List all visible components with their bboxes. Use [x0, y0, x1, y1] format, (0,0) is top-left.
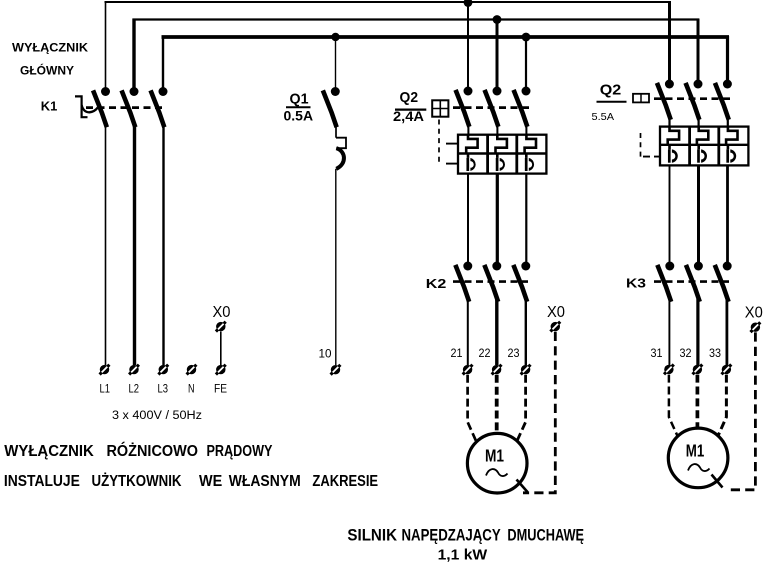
Q2-left trip stub upper	[446, 143, 458, 145]
terminal X0 left	[550, 322, 560, 332]
K3 pole2 contact dot	[694, 262, 703, 271]
magnetic release pole1 left	[468, 158, 476, 171]
wire K1 pole1 to L1 terminal	[105, 124, 107, 365]
terminal L3	[158, 365, 168, 375]
wire L1 drop to K1 pole1	[105, 1, 107, 91]
terminal 22	[492, 365, 502, 375]
wire overload to K2 pole2	[496, 174, 499, 263]
wire Q2-left pole1 from bus	[467, 2, 469, 88]
svg-text:K1: K1	[41, 100, 58, 114]
K1 actuator bracket	[75, 96, 88, 117]
K2 pole2 blade	[485, 267, 497, 300]
wire Q1 from bus	[335, 37, 337, 88]
motor right PE tick	[712, 475, 723, 488]
wire L2 bus horizontal	[133, 18, 700, 20]
magnetic release pole2 left	[497, 158, 505, 171]
wire overload to K2 pole3	[525, 174, 527, 263]
terminal 10	[331, 365, 341, 375]
K3 pole1 contact dot	[665, 262, 674, 271]
cable terminal32 to motor	[696, 375, 700, 429]
svg-text:33: 33	[709, 346, 721, 360]
svg-text:X0: X0	[547, 304, 565, 321]
motor M1 right	[668, 428, 728, 488]
Q2-left trip dashed link	[438, 120, 440, 165]
thermal element pole3 left	[525, 135, 536, 154]
svg-text:FE: FE	[214, 382, 227, 396]
wire Q2-left pole3 to overload	[525, 124, 527, 136]
wire L2 drop to Q2-right pole2	[697, 19, 700, 82]
Q2-left underline	[395, 108, 426, 110]
svg-text:INSTALUJE: INSTALUJE	[4, 472, 80, 490]
overload relay block right	[660, 127, 748, 166]
Q2-left trip stub lower	[446, 163, 458, 165]
X0-right dashed protective wire	[726, 332, 755, 489]
K1 pole1 contact dot	[101, 87, 110, 96]
wire K2 pole1 to terminal 21	[467, 299, 469, 365]
wire Q2-left pole2 to overload	[496, 124, 498, 136]
K2 pole1 blade	[456, 267, 468, 300]
terminal 21	[463, 365, 473, 375]
motor M1 left	[467, 433, 527, 493]
thermal element pole2 right	[697, 127, 708, 145]
K1 actuator hook	[82, 105, 98, 112]
K3 pole3 blade	[716, 267, 728, 300]
wire pole3 in overload left	[525, 154, 528, 158]
svg-text:32: 32	[680, 346, 692, 360]
magnetic release pole3 right	[728, 149, 736, 162]
junction L3 bus / Q2-left pole3	[522, 33, 531, 42]
K2 pole1 contact dot	[463, 262, 472, 271]
magnetic release pole3 left	[526, 158, 534, 171]
svg-text:PRĄDOWY: PRĄDOWY	[207, 442, 274, 460]
svg-text:10: 10	[319, 347, 332, 361]
svg-text:5.5A: 5.5A	[592, 111, 615, 123]
magnetic release pole2 right	[699, 149, 707, 162]
Q2-right underline	[597, 101, 627, 103]
wire K1 pole2 to L2 terminal	[133, 124, 136, 365]
wire K1 pole3 to L3 terminal	[162, 124, 164, 365]
terminal 31	[664, 365, 674, 375]
Q2-left pole2 blade	[485, 92, 497, 125]
terminal X0 right	[751, 322, 761, 332]
Q2-right pole3 contact dot	[723, 80, 732, 89]
terminal 23	[521, 365, 531, 375]
Q1 label underline	[286, 106, 311, 108]
thermal element pole1 right	[668, 127, 679, 145]
K3 mechanical link	[654, 280, 729, 283]
wire pole1 in overload right	[668, 145, 671, 150]
svg-text:GŁÓWNY: GŁÓWNY	[20, 63, 74, 78]
Q2-left breaker symbol box	[432, 100, 448, 116]
K1 mechanical link	[86, 106, 163, 109]
svg-text:X0: X0	[745, 304, 763, 321]
svg-text:31: 31	[651, 346, 663, 360]
svg-text:L3: L3	[158, 382, 169, 396]
svg-text:Q1: Q1	[290, 89, 309, 106]
svg-text:K2: K2	[426, 277, 447, 291]
junction L1 bus / Q2-left pole1	[464, 0, 473, 7]
wire L3 drop to Q2-right pole3	[726, 36, 729, 81]
svg-text:WYŁĄCZNIK: WYŁĄCZNIK	[4, 442, 94, 460]
svg-text:0.5A: 0.5A	[284, 107, 314, 123]
svg-text:SILNIK: SILNIK	[347, 527, 397, 545]
Q2-right breaker symbol box	[633, 94, 649, 103]
wire Q2-left pole2 from bus	[496, 20, 499, 88]
Q2-right pole1 blade	[658, 85, 670, 118]
svg-text:Q2: Q2	[400, 88, 419, 105]
svg-text:L1: L1	[100, 382, 111, 396]
K3 pole2 blade	[687, 267, 699, 300]
svg-text:2,4A: 2,4A	[393, 108, 425, 124]
terminal N	[187, 365, 197, 375]
svg-text:NAPĘDZAJĄCY: NAPĘDZAJĄCY	[402, 527, 502, 545]
terminal 32	[693, 365, 703, 375]
cable terminal22 to motor	[495, 375, 499, 434]
thermal element pole2 left	[496, 135, 507, 154]
wire K2 pole2 to terminal 22	[495, 299, 498, 365]
wire K3 pole3 to terminal 33	[726, 299, 729, 365]
svg-text:UŻYTKOWNIK: UŻYTKOWNIK	[92, 472, 183, 490]
Q2-right trip dashed link	[640, 133, 642, 158]
wire Q2-right pole1 to overload	[668, 117, 670, 128]
Q2-left pole1 contact dot	[464, 87, 473, 96]
Q2-right pole2 blade	[686, 85, 698, 118]
wire K2 pole3 to terminal 23	[525, 299, 527, 365]
wire Q2-right pole3 to overload	[727, 117, 729, 128]
svg-text:RÓŻNICOWO: RÓŻNICOWO	[107, 441, 199, 460]
svg-text:22: 22	[479, 346, 491, 360]
thermal element pole1 left	[466, 135, 477, 154]
svg-text:M1: M1	[686, 442, 705, 461]
motor left PE tick	[517, 480, 528, 493]
terminal FE	[216, 365, 226, 375]
wire Q1 blade to thermal	[335, 124, 337, 138]
svg-text:WŁASNYM: WŁASNYM	[229, 472, 301, 490]
svg-text:M1: M1	[485, 447, 504, 466]
wire Q1 to terminal 10	[335, 169, 337, 365]
Q2-left mechanical link	[453, 106, 529, 109]
thermal element pole3 right	[726, 127, 737, 145]
X0-left dashed protective wire	[523, 332, 555, 493]
cable terminal21 to motor	[468, 375, 479, 447]
svg-text:23: 23	[508, 346, 520, 360]
wire pole3 in overload right	[727, 145, 730, 150]
svg-text:WYŁĄCZNIK: WYŁĄCZNIK	[12, 41, 88, 55]
K3 pole1 blade	[658, 267, 670, 300]
svg-text:L2: L2	[129, 382, 140, 396]
Q2-right mechanical link	[654, 97, 731, 100]
K2 pole3 contact dot	[521, 262, 530, 271]
svg-text:1,1 kW: 1,1 kW	[438, 547, 488, 563]
svg-text:WE: WE	[199, 472, 222, 490]
wire L3 bus horizontal	[162, 35, 730, 39]
terminal L2	[129, 365, 139, 375]
overload relay block left	[458, 135, 546, 174]
Q2-right pole1 contact dot	[665, 80, 674, 89]
Q1 release hook	[336, 148, 344, 169]
wire Q2-left pole1 to overload	[467, 124, 469, 136]
K1 pole2 blade	[122, 93, 134, 126]
terminal 33	[722, 365, 732, 375]
Q2-right pole3 blade	[716, 85, 728, 118]
cable terminal31 to motor	[669, 375, 680, 442]
cable terminal23 to motor	[515, 375, 526, 447]
wire pole2 in overload right	[697, 145, 700, 150]
wire L1 drop to Q2-right pole1	[668, 1, 671, 81]
junction L2 bus / Q2-left pole2	[493, 15, 502, 24]
K1 pole2 contact dot	[130, 87, 139, 96]
wire overload to K3 pole2	[697, 165, 700, 262]
K1 pole1 blade	[94, 93, 106, 126]
wire overload to K2 pole1	[467, 174, 469, 263]
wire Q2-left pole3 from bus	[525, 37, 527, 88]
wire pole1 in overload left	[467, 154, 470, 158]
svg-text:DMUCHAWĘ: DMUCHAWĘ	[507, 527, 584, 545]
wire pole2 in overload left	[496, 154, 499, 158]
wire K3 pole2 to terminal 32	[696, 299, 699, 365]
svg-text:X0: X0	[213, 304, 231, 321]
svg-text:Q2: Q2	[600, 80, 622, 97]
wire overload to K3 pole1	[669, 165, 671, 262]
junction L3 bus / Q1	[331, 33, 339, 41]
terminal X0 bottom	[216, 322, 226, 332]
K1 pole3 blade	[151, 93, 163, 126]
K3 pole3 contact dot	[723, 262, 732, 271]
Q1 contact dot	[331, 87, 340, 96]
magnetic release pole1 right	[669, 149, 677, 162]
Q2-left pole2 contact dot	[493, 87, 502, 96]
Q1 blade	[324, 93, 336, 126]
Q2-left pole3 blade	[514, 92, 526, 125]
wire Q2-right pole2 to overload	[697, 117, 699, 128]
svg-text:21: 21	[451, 346, 463, 360]
wire K3 pole1 to terminal 31	[668, 299, 670, 365]
wire L3 drop to K1 pole3	[162, 36, 164, 91]
svg-text:3 x 400V / 50Hz: 3 x 400V / 50Hz	[112, 410, 202, 422]
K2 pole3 blade	[514, 267, 526, 300]
Q2-right trip stub	[643, 156, 660, 158]
K2 pole2 contact dot	[492, 262, 501, 271]
K2 mechanical link	[453, 280, 528, 283]
Q1 thermal element jog	[336, 138, 346, 149]
wire L1 bus horizontal	[105, 1, 671, 3]
cable terminal33 to motor	[716, 375, 727, 442]
svg-text:K3: K3	[626, 277, 646, 291]
terminal L1	[100, 365, 110, 375]
Q2-right pole2 contact dot	[694, 80, 703, 89]
K1 pole3 contact dot	[159, 87, 168, 96]
wire overload to K3 pole3	[726, 165, 729, 262]
svg-text:N: N	[188, 382, 195, 396]
Q2-left pole3 contact dot	[522, 87, 531, 96]
svg-text:ZAKRESIE: ZAKRESIE	[312, 472, 378, 490]
wire X0 to FE	[220, 332, 222, 366]
wire L2 drop to K1 pole2	[132, 19, 135, 92]
Q2-left pole1 blade	[456, 92, 468, 125]
